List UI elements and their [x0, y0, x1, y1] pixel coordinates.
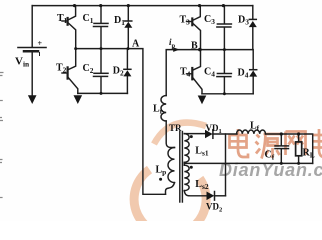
- svg-text:T3: T3: [180, 15, 191, 27]
- svg-text:Lp: Lp: [156, 165, 167, 177]
- svg-text:Lf: Lf: [250, 121, 260, 133]
- svg-text:B: B: [191, 41, 198, 52]
- svg-text:T1: T1: [57, 13, 68, 25]
- svg-text:+: +: [38, 39, 43, 48]
- svg-text:T4: T4: [180, 67, 191, 79]
- svg-text:D2: D2: [113, 65, 124, 77]
- svg-text:A: A: [132, 39, 140, 50]
- svg-text:D3: D3: [238, 15, 249, 27]
- svg-text:C3: C3: [204, 14, 215, 26]
- svg-text:C1: C1: [83, 13, 94, 25]
- svg-text:C4: C4: [204, 67, 215, 79]
- svg-text:C2: C2: [83, 63, 94, 75]
- svg-text:T2: T2: [56, 63, 67, 75]
- svg-text:D1: D1: [114, 15, 125, 27]
- svg-text:TR: TR: [169, 123, 182, 133]
- svg-text:D4: D4: [238, 68, 249, 80]
- svg-text:ip: ip: [169, 37, 176, 50]
- svg-text:Vin: Vin: [15, 56, 29, 69]
- svg-text:Ls1: Ls1: [195, 146, 209, 158]
